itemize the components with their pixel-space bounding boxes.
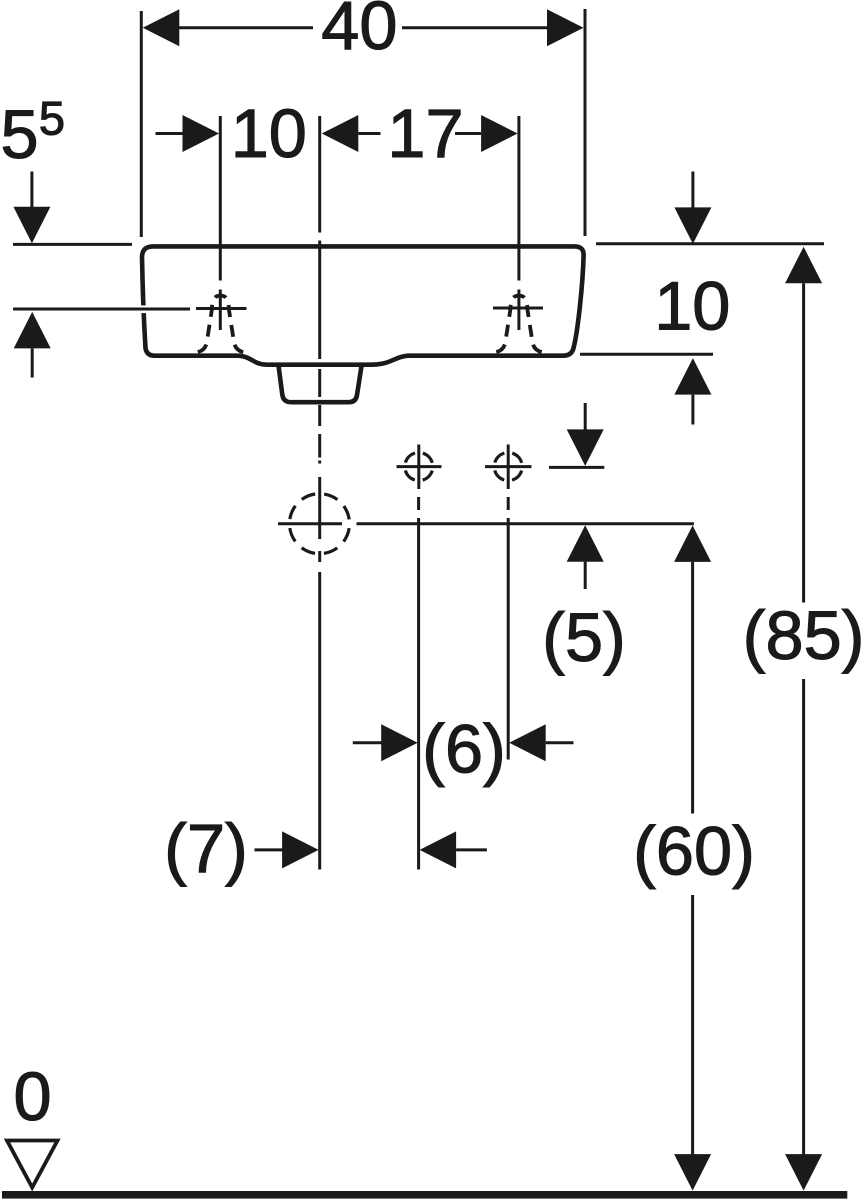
basin vertical center line <box>318 116 321 870</box>
svg-text:5: 5 <box>39 92 65 145</box>
tap hole center line left <box>219 116 222 330</box>
dim 17 arrowhead right <box>481 115 517 152</box>
dim 40 line right segment <box>402 26 548 29</box>
dim 7 stem right <box>456 848 487 851</box>
dim 6 stem right <box>546 741 574 744</box>
dim 10 stem left <box>156 132 184 135</box>
dim 85 line lower <box>802 679 805 1156</box>
dim 5.5 down arrowhead <box>13 207 50 244</box>
connection extension line right <box>507 497 510 760</box>
dim 40 extension line right <box>584 9 587 236</box>
dim 7 stem left <box>255 848 284 851</box>
dim 10 right up arrowhead <box>674 358 711 395</box>
dim 60 line upper <box>691 562 694 814</box>
dim 10 right down arrowhead <box>674 207 711 244</box>
svg-text:10: 10 <box>231 95 307 172</box>
svg-text:(6): (6) <box>422 711 506 788</box>
svg-text:(7): (7) <box>164 810 248 887</box>
dim 17 stem right <box>455 132 481 135</box>
dim 17 stem left <box>358 132 380 135</box>
dim 10 right up arrow stem <box>691 395 694 425</box>
svg-text:5: 5 <box>0 96 38 173</box>
floor line <box>2 1191 847 1199</box>
dim 6 arrowhead right <box>509 724 546 761</box>
dim 10 arrowhead <box>183 115 220 152</box>
connection circle right cross horizontal <box>485 465 532 468</box>
dim 40 arrowhead right <box>547 9 584 46</box>
gap in basin edge at level line <box>136 305 153 313</box>
dim 7 arrowhead right <box>420 831 457 868</box>
dim 40 arrowhead left <box>143 9 180 46</box>
dim 6 stem left <box>353 741 382 744</box>
water connection dashed circle left <box>405 453 433 481</box>
dim 6 arrowhead left <box>381 724 418 761</box>
svg-text:(5): (5) <box>542 599 626 676</box>
basin bottom extension line right <box>580 353 713 356</box>
basin outline <box>142 246 584 364</box>
connection circle left cross vertical <box>417 445 420 490</box>
dim 85 bottom arrowhead <box>785 1154 822 1191</box>
svg-text:17: 17 <box>387 95 463 172</box>
datum zero triangle <box>7 1141 58 1188</box>
top wall reference line right <box>596 242 824 245</box>
svg-text:0: 0 <box>13 1058 51 1135</box>
dim 5 short level line <box>549 466 604 469</box>
svg-text:10: 10 <box>654 268 730 345</box>
dim 60 top arrowhead <box>674 525 711 562</box>
dim 5 up arrowhead <box>567 525 604 562</box>
dim 85 top arrowhead <box>785 247 822 283</box>
svg-text:(60): (60) <box>633 813 755 890</box>
tap hole dashed outline right <box>494 296 544 353</box>
svg-text:40: 40 <box>321 0 397 64</box>
dim 60 line lower <box>691 895 694 1156</box>
tap hole center line right <box>517 116 520 330</box>
dim 85 line upper <box>802 283 805 602</box>
trap level line through circle <box>278 522 342 525</box>
dim 10 right down arrow stem <box>691 172 694 209</box>
tap hole tick right <box>493 307 543 310</box>
drain outlet spigot <box>278 364 362 402</box>
dim 5.5 up arrowhead <box>14 312 51 349</box>
dim 60 bottom arrowhead <box>674 1154 711 1191</box>
dim 5 down arrowhead <box>567 429 604 466</box>
top wall reference line left <box>13 243 132 246</box>
water connection dashed circle right <box>494 453 522 481</box>
dim 5.5 down arrow stem <box>30 172 33 208</box>
dim 17 arrowhead left <box>322 115 359 152</box>
trap level line to 60 dim <box>357 522 694 525</box>
dim 5 up arrow stem <box>584 562 587 589</box>
tap hole dashed outline left <box>195 296 245 353</box>
bottle trap dashed circle <box>290 494 350 554</box>
tap hole tick left <box>196 307 247 310</box>
connection extension line left <box>417 497 420 870</box>
connection circle right cross vertical <box>507 445 510 490</box>
dim 7 arrowhead left <box>282 831 319 868</box>
dim 40 line left segment <box>178 26 313 29</box>
dim 5.5 up arrow stem <box>31 348 34 377</box>
dim 40 extension line left <box>140 11 143 237</box>
tap level line left <box>13 308 190 311</box>
svg-text:(85): (85) <box>743 597 864 674</box>
connection circle left cross horizontal <box>397 465 442 468</box>
dim 5 down arrow stem <box>584 403 587 431</box>
